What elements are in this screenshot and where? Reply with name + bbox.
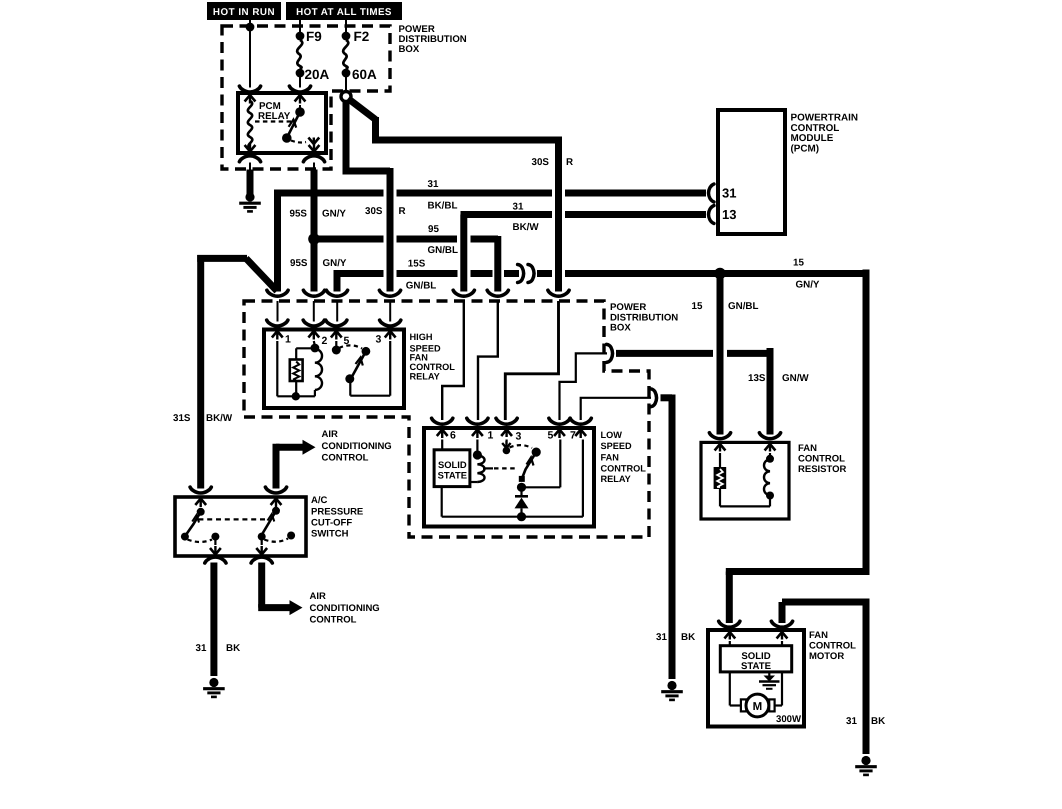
svg-text:CONDITIONING: CONDITIONING bbox=[322, 441, 392, 452]
wire feeder to HS pin 1 bbox=[277, 301, 279, 322]
svg-text:HOT AT ALL TIMES: HOT AT ALL TIMES bbox=[296, 7, 392, 18]
motor M circle bbox=[746, 694, 769, 717]
wire 31 BK/BL bus bbox=[274, 193, 281, 292]
ground G3 bbox=[667, 681, 676, 690]
resistor FAN CONTROL RESISTOR box bbox=[701, 442, 789, 519]
svg-text:13S: 13S bbox=[748, 373, 766, 384]
motor terminals bbox=[741, 699, 746, 711]
svg-text:CONTROL: CONTROL bbox=[322, 453, 369, 464]
svg-text:15: 15 bbox=[692, 301, 703, 312]
HS relay switch to pin 3 bbox=[349, 379, 351, 396]
svg-text:GN/BL: GN/BL bbox=[428, 245, 458, 256]
fuse F9 20A bbox=[296, 32, 305, 41]
svg-text:95S: 95S bbox=[290, 209, 308, 220]
wire feeder to HS pin 2 bbox=[313, 301, 315, 322]
connector arcs A/C switch bottom bbox=[205, 557, 226, 563]
wire 31 BK/W bus bbox=[460, 215, 467, 292]
ground G4 bbox=[861, 756, 870, 765]
fuse F2 60A bbox=[342, 32, 351, 41]
svg-text:FAN: FAN bbox=[601, 452, 620, 462]
connector arc 30S-left into PDB bbox=[379, 290, 400, 296]
wire hot-in-run to PCM relay coil bbox=[249, 20, 251, 88]
svg-text:30S: 30S bbox=[532, 157, 550, 168]
connector arc motor right pin bbox=[771, 621, 792, 627]
LS switch arm bbox=[532, 448, 541, 457]
resistor bottom rail bbox=[720, 505, 770, 507]
wire feeder 95 to LS pin 1 bbox=[478, 301, 498, 420]
wire LS pin 5 to 13S connector bbox=[560, 353, 608, 420]
connector arcs PCM relay top bbox=[239, 86, 260, 92]
svg-text:31: 31 bbox=[722, 186, 736, 201]
thin stubs to dashed box bottom bbox=[249, 163, 251, 170]
connector arc 95 into PDB bbox=[487, 290, 508, 296]
svg-text:BK: BK bbox=[681, 632, 695, 643]
svg-text:R: R bbox=[566, 157, 573, 168]
wire 15 GN/Y continuation bbox=[537, 270, 552, 277]
node HOT IN RUN header bbox=[207, 2, 281, 20]
svg-text:SPEED: SPEED bbox=[601, 441, 633, 451]
wire 15 GN/BL drop bbox=[717, 273, 724, 435]
wire 13S GN/W bbox=[616, 350, 713, 357]
PCM relay pin to bottom right bbox=[313, 141, 315, 144]
wire feeder 30S to LS pin 3 bbox=[505, 301, 558, 420]
svg-text:BK/BL: BK/BL bbox=[428, 201, 458, 212]
svg-text:15S: 15S bbox=[408, 259, 426, 270]
svg-text:A/C: A/C bbox=[311, 495, 328, 506]
svg-text:300W: 300W bbox=[776, 714, 802, 725]
connector 31 at PDB2 right edge bbox=[651, 389, 657, 407]
LS pin3 contact bbox=[506, 440, 508, 445]
svg-text:GN/Y: GN/Y bbox=[323, 258, 347, 269]
connector arc 30S into PDB bbox=[548, 290, 569, 296]
LS diode bbox=[520, 487, 522, 495]
LS switch to pin 5 bbox=[522, 486, 561, 488]
svg-text:31: 31 bbox=[513, 201, 524, 212]
svg-text:AIR: AIR bbox=[310, 591, 327, 602]
svg-text:F9: F9 bbox=[306, 29, 322, 44]
svg-text:BOX: BOX bbox=[610, 323, 631, 334]
svg-text:2: 2 bbox=[322, 335, 328, 347]
wire LS pin 7 to 31 connector bbox=[581, 398, 651, 420]
resistor coil element bbox=[769, 453, 771, 456]
switch A/C PRESSURE CUT-OFF box bbox=[175, 497, 306, 556]
svg-text:GN/W: GN/W bbox=[782, 373, 809, 384]
A/C switch left pole bbox=[200, 508, 202, 509]
svg-text:15: 15 bbox=[793, 258, 804, 269]
power distribution box 2 outline bbox=[244, 301, 649, 537]
wire feeder 31BK/W to LS pin 6 bbox=[442, 301, 464, 420]
PCM relay switch dashed throw bbox=[291, 141, 306, 143]
node junction 95S splice bbox=[308, 233, 320, 245]
svg-text:RELAY: RELAY bbox=[258, 111, 291, 122]
relay LOW SPEED FAN CONTROL box bbox=[424, 428, 594, 527]
relay PCM RELAY box bbox=[238, 93, 326, 153]
wire to air conditioning control upper bbox=[273, 444, 280, 489]
resistor element bbox=[719, 453, 721, 467]
svg-text:PRESSURE: PRESSURE bbox=[311, 507, 363, 518]
svg-text:31: 31 bbox=[428, 179, 439, 190]
power distribution box 1 outline bbox=[222, 26, 390, 169]
A/C switch left bottom pin bbox=[214, 538, 216, 545]
HS relay pin1 left rail bbox=[276, 341, 278, 396]
A/C switch right pole bbox=[275, 507, 277, 510]
svg-text:F2: F2 bbox=[354, 29, 370, 44]
svg-text:13: 13 bbox=[722, 207, 736, 222]
wire feeder to HS pin 5 bbox=[336, 301, 338, 322]
wire 30S R vertical to power distribution box bbox=[555, 137, 562, 292]
node splice circle under F2 bbox=[341, 92, 351, 102]
svg-text:R: R bbox=[399, 206, 406, 217]
HS relay coil branch bbox=[314, 341, 315, 346]
connector arc 31BK/W into PDB bbox=[453, 290, 474, 296]
PCM relay coil bbox=[248, 101, 253, 148]
wire 31 BK switch ground bbox=[210, 563, 217, 677]
connector arcs HS relay top bbox=[267, 320, 288, 326]
svg-text:STATE: STATE bbox=[741, 661, 772, 672]
connector arc motor left pin bbox=[719, 621, 740, 627]
svg-text:30S: 30S bbox=[365, 206, 383, 217]
motor solid state box bbox=[729, 641, 731, 646]
LS coil dashed link bbox=[483, 467, 493, 469]
svg-text:STATE: STATE bbox=[438, 470, 467, 481]
wire 30S R upper run bbox=[348, 99, 376, 120]
svg-text:CONDITIONING: CONDITIONING bbox=[310, 603, 380, 614]
connector arcs A/C switch top bbox=[190, 487, 211, 493]
svg-text:RELAY: RELAY bbox=[410, 371, 440, 381]
wire F9 to PCM relay bbox=[299, 77, 301, 88]
connector arc 95S into PDB bbox=[303, 290, 324, 296]
connector arc 31 into PDB bbox=[267, 290, 288, 296]
A/C switch right bottom pin bbox=[261, 538, 263, 545]
HS relay switch arm bbox=[362, 347, 371, 356]
svg-text:GN/BL: GN/BL bbox=[406, 280, 436, 291]
PCM relay switch arm bbox=[288, 112, 301, 137]
PCM relay coil-switch dashed link bbox=[255, 120, 292, 122]
svg-text:MOTOR: MOTOR bbox=[809, 651, 844, 662]
svg-text:95S: 95S bbox=[290, 258, 308, 269]
connector arc 15S into PDB bbox=[326, 290, 347, 296]
LS pin6 wire bbox=[441, 440, 443, 450]
svg-text:(PCM): (PCM) bbox=[791, 143, 820, 154]
pin arrows A/C switch top bbox=[195, 499, 206, 506]
pin arrows HS relay bbox=[272, 331, 283, 338]
LS pin7 rail bbox=[582, 440, 584, 517]
svg-text:BK: BK bbox=[226, 643, 240, 654]
motor wiring bbox=[729, 672, 731, 706]
svg-text:7: 7 bbox=[570, 430, 576, 442]
svg-text:FAN: FAN bbox=[809, 630, 828, 641]
svg-text:20A: 20A bbox=[305, 67, 330, 82]
svg-text:LOW: LOW bbox=[601, 430, 623, 440]
PCM relay switch contact bbox=[299, 105, 301, 109]
pin arrows PCM relay top bbox=[245, 95, 256, 102]
connector arcs LS relay top bbox=[432, 418, 453, 424]
pin arrows resistor bbox=[715, 444, 726, 451]
wire 15S GN/BL bus bbox=[334, 270, 341, 292]
wire R from splice to 30S branch bbox=[343, 100, 350, 171]
svg-text:BK/W: BK/W bbox=[513, 222, 540, 233]
ground G1 bbox=[245, 192, 254, 201]
svg-text:BK: BK bbox=[871, 716, 885, 727]
connector 13S at PDB2 edge bbox=[607, 344, 613, 362]
node junction dot hot-in-run bbox=[246, 23, 255, 32]
connector arcs resistor top bbox=[709, 433, 730, 439]
pin arrows LS relay bbox=[437, 430, 448, 437]
wire PCM relay coil to ground bbox=[247, 170, 254, 196]
wire 31 BK low speed ground bbox=[661, 394, 673, 401]
wire 95S GN/Y bbox=[311, 170, 318, 292]
motor FAN CONTROL MOTOR box bbox=[708, 630, 804, 727]
connector arcs PCM relay bottom bbox=[239, 156, 260, 162]
wire feeder to HS pin 3 bbox=[389, 301, 391, 322]
wire to air conditioning control lower bbox=[258, 563, 265, 608]
module POWERTRAIN CONTROL MODULE box bbox=[718, 110, 785, 234]
svg-text:CUT-OFF: CUT-OFF bbox=[311, 518, 352, 529]
svg-text:31: 31 bbox=[656, 632, 667, 643]
svg-text:CONTROL: CONTROL bbox=[310, 615, 357, 626]
svg-text:60A: 60A bbox=[352, 67, 377, 82]
LS pin1 wire and coil bbox=[476, 440, 478, 453]
svg-text:6: 6 bbox=[450, 430, 456, 442]
svg-text:GN/Y: GN/Y bbox=[796, 280, 820, 291]
HS relay resistor branch bbox=[296, 347, 315, 349]
LS solid state box bbox=[434, 450, 470, 487]
LS bottom rail bbox=[442, 516, 583, 518]
svg-text:31: 31 bbox=[846, 716, 857, 727]
wire 95 GN/BL bbox=[314, 236, 384, 243]
node junction 15 splice bbox=[714, 268, 726, 280]
svg-text:3: 3 bbox=[376, 334, 382, 346]
svg-text:BOX: BOX bbox=[399, 44, 420, 55]
HS relay switch fixed contact pin5 bbox=[335, 341, 337, 347]
svg-text:RELAY: RELAY bbox=[601, 474, 631, 484]
pin arrows motor bbox=[724, 632, 735, 639]
ground G2 bbox=[209, 678, 218, 687]
connector PCM pin 31 bbox=[709, 184, 715, 202]
svg-text:CONTROL: CONTROL bbox=[601, 464, 647, 474]
relay HIGH SPEED FAN CONTROL box bbox=[264, 330, 404, 409]
wire motor right to ground bbox=[779, 602, 786, 623]
svg-text:SOLID: SOLID bbox=[438, 459, 467, 470]
HS relay switch dashed throw bbox=[339, 345, 362, 348]
svg-text:31S: 31S bbox=[173, 413, 191, 424]
svg-text:HOT IN RUN: HOT IN RUN bbox=[213, 7, 275, 18]
pin arrows PCM relay bottom bbox=[245, 145, 256, 152]
svg-text:CONTROL: CONTROL bbox=[809, 641, 856, 652]
svg-text:95: 95 bbox=[428, 224, 439, 235]
svg-text:BK/W: BK/W bbox=[206, 413, 233, 424]
A/C switch dashed link bbox=[198, 518, 266, 520]
svg-text:SWITCH: SWITCH bbox=[311, 529, 349, 540]
connector in-line 15S bbox=[518, 265, 524, 283]
svg-text:M: M bbox=[753, 701, 763, 713]
LS switch dashed throw bbox=[510, 445, 533, 448]
svg-text:1: 1 bbox=[285, 334, 291, 346]
connector PCM pin 13 bbox=[709, 206, 715, 224]
node HOT AT ALL TIMES header bbox=[286, 2, 402, 20]
svg-text:AIR: AIR bbox=[322, 429, 339, 440]
svg-text:CONTROL: CONTROL bbox=[798, 453, 845, 464]
svg-text:3: 3 bbox=[516, 431, 522, 443]
svg-text:GN/BL: GN/BL bbox=[728, 301, 758, 312]
svg-text:HIGH: HIGH bbox=[410, 332, 433, 342]
svg-text:RESISTOR: RESISTOR bbox=[798, 464, 847, 475]
svg-text:1: 1 bbox=[488, 430, 494, 442]
motor internal ground bbox=[768, 672, 770, 676]
wire F2 to splice circle bbox=[345, 77, 347, 92]
svg-text:5: 5 bbox=[548, 430, 554, 442]
wire 31S BK/W bbox=[197, 255, 247, 262]
svg-text:31: 31 bbox=[196, 643, 207, 654]
wire GN/Y right run down bbox=[863, 270, 870, 569]
svg-text:GN/Y: GN/Y bbox=[322, 209, 346, 220]
